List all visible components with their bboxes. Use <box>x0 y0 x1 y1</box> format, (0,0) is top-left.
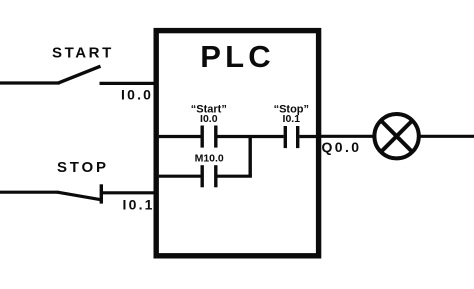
wire: lamp to right rail <box>419 135 474 138</box>
wire: STOP switch to PLC input I0.1 <box>101 191 158 194</box>
svg-text:STOP: STOP <box>57 159 109 176</box>
svg-text:Q0.0: Q0.0 <box>322 139 362 155</box>
svg-text:I0.1: I0.1 <box>283 113 301 125</box>
switch STOP contact tick <box>100 184 103 203</box>
wire: rung 1 left rail to Start contact <box>159 135 201 138</box>
switch START (normally-open knife contact) <box>58 66 101 83</box>
lamp cross stroke 2 <box>381 121 411 151</box>
contact "Start" I0.0 (NO contact bars) <box>200 126 203 148</box>
wire: M10.0 contact to branch junction <box>218 175 252 178</box>
wire: Start contact to branch junction and Stop contact <box>218 135 284 138</box>
contact "Stop" I0.1 (NC contact bars) <box>284 126 287 148</box>
svg-text:PLC: PLC <box>200 39 275 74</box>
wire: left rail to STOP switch <box>0 191 59 194</box>
svg-text:I0.1: I0.1 <box>123 197 155 213</box>
svg-text:I0.0: I0.0 <box>200 113 218 125</box>
PLC enclosure box <box>156 31 318 256</box>
wire: Stop contact to PLC output Q0.0 <box>299 135 316 138</box>
wire: rung 2 left rail to M10.0 contact <box>159 175 201 178</box>
contact M10.0 (NO contact bars) <box>200 165 203 187</box>
junction: parallel branch vertical <box>248 137 251 177</box>
svg-text:I0.0: I0.0 <box>121 86 153 102</box>
switch STOP blade (normally-closed contact) <box>58 192 102 200</box>
wire: PLC output Q0.0 to lamp <box>319 135 375 138</box>
wire: left rail to START switch <box>0 81 60 84</box>
lamp Q0.0 (indicator light circle) <box>374 114 418 158</box>
svg-text:M10.0: M10.0 <box>195 152 224 164</box>
lamp cross stroke 1 <box>381 121 411 151</box>
wire: START switch to PLC input I0.0 <box>100 82 159 85</box>
svg-text:START: START <box>52 45 114 62</box>
